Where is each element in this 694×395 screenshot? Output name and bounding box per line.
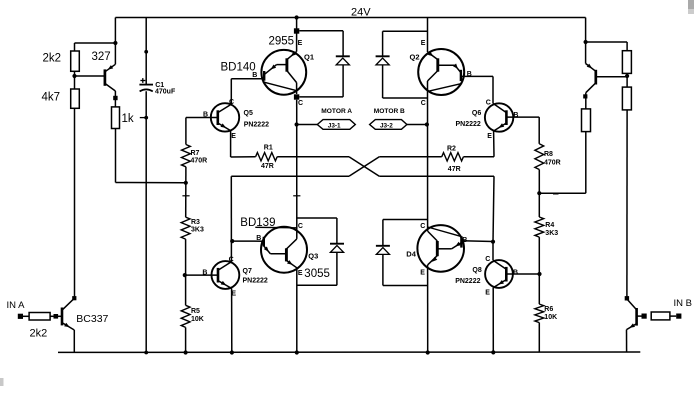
svg-text:3K3: 3K3 xyxy=(191,227,204,234)
top power rail 24V xyxy=(115,17,585,19)
Q3 emitter wire down xyxy=(296,268,298,353)
svg-text:C: C xyxy=(229,99,234,106)
Q3 top chord xyxy=(255,226,296,229)
capacitor C1 wire from rail xyxy=(145,18,147,85)
resistor R8 470R xyxy=(535,144,544,170)
svg-text:IN B: IN B xyxy=(674,298,692,309)
wire R5 to bottom rail xyxy=(185,327,187,352)
svg-text:Q8: Q8 xyxy=(472,267,481,274)
node motor A junction xyxy=(295,122,299,126)
svg-text:R3: R3 xyxy=(191,219,200,226)
Q2 driver bar xyxy=(460,70,462,81)
node dot on C1 wire xyxy=(144,50,148,54)
terminal square IN B xyxy=(676,314,681,319)
node base junction of 327 xyxy=(72,74,76,78)
Q4 base coupling line xyxy=(437,248,451,250)
wire diode to box bottom xyxy=(382,254,384,285)
svg-text:R7: R7 xyxy=(191,150,200,157)
svg-text:C: C xyxy=(486,100,491,107)
wire 1k bottom to R7 column xyxy=(115,129,117,183)
Q4 emitter wire down xyxy=(427,265,429,353)
transistor (right PNP, 327 mirror) xyxy=(596,76,627,78)
connector J3-1 motor A hexagon xyxy=(317,120,355,130)
transistor Q2 2955 with driver (PNP pair, mirrored) xyxy=(418,49,464,95)
svg-text:B: B xyxy=(252,72,257,79)
node junction R8 bottom xyxy=(537,191,541,195)
svg-text:C: C xyxy=(298,223,303,230)
svg-text:B: B xyxy=(203,112,208,119)
gray scan artifact bottom-left xyxy=(0,378,4,386)
resistor R2 47R xyxy=(442,153,464,161)
svg-text:B: B xyxy=(513,270,518,277)
node junction R7-bottom / 1k wire xyxy=(184,181,188,185)
wire 4k7 down to BC337 collector xyxy=(74,108,76,298)
terminal square IN A xyxy=(18,314,23,319)
resistor 2k2 (IN B series) xyxy=(651,312,670,320)
wire Q4 base to Q8 column xyxy=(461,240,493,243)
wire C1 to bottom rail xyxy=(145,91,147,352)
wire R2 to Q6 emitter xyxy=(463,156,494,158)
svg-text:C: C xyxy=(485,256,490,263)
transistor Q6 PN2222 (NPN, mirrored) xyxy=(485,103,513,131)
resistor 2k2 (IN A series) xyxy=(29,313,50,321)
svg-text:10K: 10K xyxy=(191,316,204,323)
connector J3-2 motor B hexagon xyxy=(370,120,407,130)
wire crossover diagonal upper-left to lower-right xyxy=(349,157,379,177)
svg-text:B: B xyxy=(513,112,518,119)
transistor Q7 PN2222 (NPN) xyxy=(212,261,240,289)
wire to base junction xyxy=(626,73,628,87)
svg-text:Q7: Q7 xyxy=(243,268,252,275)
wire BD140 base from Q5 collector corner xyxy=(231,78,264,80)
svg-text:D4: D4 xyxy=(406,249,416,258)
Q4 top chord xyxy=(428,227,461,236)
resistor R7 470R xyxy=(182,145,191,167)
node square at right base xyxy=(642,314,647,319)
resistor 2k2 (left) xyxy=(71,51,80,71)
wire xyxy=(23,315,29,317)
diode freewheel (top-left) xyxy=(336,55,350,57)
wire junction to right 2k2 xyxy=(586,41,628,43)
svg-text:B: B xyxy=(256,235,261,242)
wire diode box bottom-left xyxy=(297,217,337,219)
svg-text:J3-1: J3-1 xyxy=(328,122,341,129)
svg-text:B: B xyxy=(462,237,467,244)
svg-text:PN2222: PN2222 xyxy=(456,121,481,128)
Q4 emitter diag xyxy=(428,256,438,265)
transistor Q1 2955 with BD140 driver (PNP pair) xyxy=(261,50,306,95)
Q2 emitter wire xyxy=(427,18,429,53)
svg-text:E: E xyxy=(420,269,425,276)
Q2 bottom chord xyxy=(428,83,463,91)
node square at BC337 base xyxy=(54,314,59,319)
wire Q2 base to Q6 collector corner xyxy=(461,75,493,77)
bottom common rail xyxy=(58,351,640,353)
Q1 main bar xyxy=(285,58,288,71)
svg-text:C: C xyxy=(420,223,425,230)
wire upper-right horizontal to R2 xyxy=(379,156,441,158)
transistor Q8 PN2222 (NPN, mirrored) xyxy=(485,260,513,288)
diode freewheel (top-right) xyxy=(376,55,390,57)
svg-text:R2: R2 xyxy=(447,146,456,153)
wire xyxy=(58,315,62,317)
Q1 bottom chord xyxy=(263,82,296,91)
transistor Q4 3055 with driver (NPN pair, mirrored) xyxy=(417,225,464,272)
node right transistor base junction xyxy=(625,74,629,78)
Q2 base coupling line xyxy=(438,64,455,66)
wire Q5 base to R7 xyxy=(185,118,187,145)
gray scan artifact top-right corner xyxy=(688,0,694,9)
BD140 bar inside Q1 xyxy=(263,71,265,81)
svg-text:IN A: IN A xyxy=(7,300,26,311)
resistor (right, 1k mirror) xyxy=(582,109,591,132)
wire Q1 collector column down to Q3 xyxy=(296,100,298,239)
svg-text:MOTOR A: MOTOR A xyxy=(321,108,352,115)
Q4 collector diag xyxy=(428,231,438,241)
resistor R3 3K3 xyxy=(181,217,190,239)
wire diode box bottom-right xyxy=(383,219,428,221)
small dash artifact xyxy=(553,193,559,195)
svg-text:24V: 24V xyxy=(351,7,371,19)
Q3 emitter diag xyxy=(286,260,296,267)
node right top junction xyxy=(584,40,588,44)
resistor (right top, 2k2 mirror) xyxy=(622,51,631,74)
Q1 collector square terminal xyxy=(294,94,299,99)
svg-text:2955: 2955 xyxy=(269,36,295,48)
wire R4 to R6 xyxy=(538,237,540,304)
node BD139 base / Q7 collector junction xyxy=(230,239,234,243)
svg-text:E: E xyxy=(231,291,236,298)
resistor R4 3K3 xyxy=(535,217,544,237)
node square on 327 collector xyxy=(113,96,117,100)
svg-text:MOTOR B: MOTOR B xyxy=(374,108,405,115)
Q3 main bar xyxy=(285,248,288,261)
node Q8 base junction xyxy=(537,272,541,276)
node: rail junction at Q1 emitter column xyxy=(295,15,299,19)
svg-text:PN2222: PN2222 xyxy=(243,278,268,285)
wire R3 to R5 xyxy=(185,239,187,305)
resistor (right, 4k7 mirror) xyxy=(622,87,631,110)
Q2 collector diag xyxy=(428,71,438,81)
wire crossover diagonal lower-left to upper-right xyxy=(349,157,379,177)
wire diode box top-right xyxy=(383,30,428,32)
svg-text:470uF: 470uF xyxy=(155,88,176,95)
svg-text:10K: 10K xyxy=(544,314,557,321)
wire Q2 collector column down to Q4 xyxy=(427,81,429,231)
transistor BC337 (NPN) xyxy=(61,308,64,326)
resistor R5 10K xyxy=(181,305,190,327)
wire Q6 base to R8 xyxy=(538,117,540,144)
svg-text:E: E xyxy=(231,133,236,140)
wire Q5 emitter to R1 xyxy=(231,156,256,158)
svg-text:R1: R1 xyxy=(264,145,273,152)
svg-text:1k: 1k xyxy=(122,113,134,125)
svg-text:Q1: Q1 xyxy=(304,53,314,62)
svg-text:BD139: BD139 xyxy=(240,217,275,229)
svg-text:470R: 470R xyxy=(544,160,561,167)
svg-text:PN2222: PN2222 xyxy=(244,121,269,128)
diode D4 freewheel (bottom-right) xyxy=(376,245,390,247)
svg-text:E: E xyxy=(485,290,490,297)
wire xyxy=(50,315,53,317)
svg-text:3055: 3055 xyxy=(304,268,330,280)
diode freewheel (bottom-left) xyxy=(330,243,344,245)
svg-text:E: E xyxy=(487,133,492,140)
svg-text:3K3: 3K3 xyxy=(545,230,558,237)
wire base xyxy=(637,315,642,317)
wire crossover-left lower horizontal xyxy=(231,175,349,177)
node square at BC337 collector corner xyxy=(72,296,76,300)
node rail junctions xyxy=(144,351,148,355)
svg-text:R6: R6 xyxy=(544,306,553,313)
svg-text:470R: 470R xyxy=(191,158,208,165)
tick mark on wire xyxy=(182,195,189,197)
wire BD139 base xyxy=(231,240,263,242)
svg-text:Q2: Q2 xyxy=(410,53,420,62)
wire R8 bottom to right resistor chain xyxy=(539,192,586,194)
resistor R6 10K xyxy=(535,304,544,323)
svg-text:B: B xyxy=(202,269,207,276)
wire right 4k7 down to right BC337 collector xyxy=(626,110,628,299)
transistor Q5 PN2222 (NPN) xyxy=(211,103,239,131)
capacitor C1 plates xyxy=(139,84,153,86)
svg-text:E: E xyxy=(298,40,303,47)
svg-text:BC337: BC337 xyxy=(76,313,108,325)
svg-text:BD140: BD140 xyxy=(221,62,256,74)
node motor B junction xyxy=(425,122,429,126)
Q2 main bar xyxy=(436,58,439,71)
svg-text:C: C xyxy=(421,100,426,107)
svg-text:C: C xyxy=(298,100,303,107)
transistor (right NPN, BC337 mirror) xyxy=(635,308,638,326)
resistor R1 47R xyxy=(256,153,278,161)
svg-text:J3-2: J3-2 xyxy=(380,122,393,129)
svg-text:4k7: 4k7 xyxy=(42,92,61,104)
svg-text:Q6: Q6 xyxy=(472,110,481,117)
svg-text:Q5: Q5 xyxy=(244,110,253,117)
Q1 emitter wire and square terminal xyxy=(296,18,298,52)
wire rail branch to 2k2 top xyxy=(75,42,116,44)
svg-text:327: 327 xyxy=(92,51,111,63)
node square on right collector xyxy=(583,94,587,98)
svg-text:R8: R8 xyxy=(544,151,553,158)
node Q4 base junction xyxy=(491,240,495,244)
BD139 bar inside Q3 xyxy=(263,237,265,247)
svg-text:R4: R4 xyxy=(545,222,554,229)
wire motor A xyxy=(297,124,318,126)
transistor 327 (PNP) xyxy=(75,75,105,77)
wire diode to box bottom xyxy=(342,65,344,97)
wire R8 to R4 xyxy=(538,170,540,218)
node square on right collector wire xyxy=(625,296,629,300)
svg-text:47R: 47R xyxy=(448,166,461,173)
transistor Q3 3055 with BD139 driver (NPN pair) xyxy=(261,227,307,273)
resistor 4k7 xyxy=(71,89,80,108)
wire R7 to R3 xyxy=(185,167,187,217)
node Q7 base junction xyxy=(183,273,187,277)
tick mark on wire xyxy=(293,195,300,197)
wire 2k2 to 4k7 xyxy=(74,71,76,89)
Q1 collector diag xyxy=(287,71,297,83)
Q4 main bar xyxy=(436,241,439,256)
Q3 collector diag xyxy=(286,239,296,249)
wire R1 to crossover xyxy=(277,156,349,158)
svg-text:R5: R5 xyxy=(191,308,200,315)
BD139 emitter line to Q3 base xyxy=(264,246,271,254)
wire rail end down to right junction xyxy=(585,18,587,43)
wire diode to box bottom xyxy=(336,252,338,285)
wire motor B xyxy=(407,124,428,126)
svg-text:PN2222: PN2222 xyxy=(455,278,480,285)
capacitor C1 plus sign xyxy=(140,80,145,82)
Q4 driver bar xyxy=(460,236,462,247)
svg-text:Q3: Q3 xyxy=(308,252,318,261)
wire lower-right horizontal to Q4 base column xyxy=(379,175,494,177)
node junction on 327 emitter column xyxy=(113,41,117,45)
wire diode to box bottom xyxy=(382,65,384,98)
resistor 1k xyxy=(112,107,120,129)
BD140 emitter line to Q1 base xyxy=(264,65,276,75)
node dot with stub on C1 wire xyxy=(144,116,148,120)
svg-text:B: B xyxy=(467,71,472,78)
svg-text:47R: 47R xyxy=(261,163,274,170)
svg-text:E: E xyxy=(298,270,303,277)
svg-text:C: C xyxy=(229,257,234,264)
svg-text:2k2: 2k2 xyxy=(43,53,62,65)
wire R6 to bottom rail xyxy=(538,323,540,353)
svg-text:2k2: 2k2 xyxy=(30,327,48,339)
wire diode box top-left xyxy=(299,30,343,32)
svg-text:E: E xyxy=(421,40,426,47)
wire xyxy=(670,315,676,317)
